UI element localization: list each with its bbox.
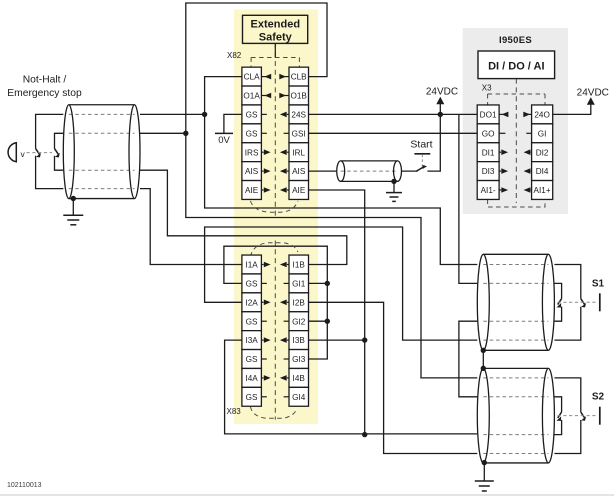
Start contact blade [416, 166, 425, 171]
terminal X82:GSI [289, 124, 309, 143]
svg-text:DI4: DI4 [536, 167, 549, 176]
arrow IRL input [287, 151, 289, 153]
svg-text:GO: GO [482, 129, 495, 138]
svg-text:CLB: CLB [291, 73, 307, 82]
cable W1 conductor 2 (dashed) [69, 132, 135, 134]
svg-text:GI3: GI3 [292, 355, 306, 364]
e-stop contact K2 blade [55, 149, 59, 155]
terminal X83:I3A [242, 331, 262, 350]
arrow I2A input [261, 301, 263, 303]
shielded cable W4 (sensor S2) body [483, 368, 548, 463]
terminal X82:GS [242, 105, 262, 124]
wire S1 conductor 3 to S2 conductor 2 [459, 321, 477, 397]
svg-text:v: v [20, 149, 25, 159]
terminal X83:GS [242, 387, 262, 406]
emergency stop mushroom button [8, 143, 16, 162]
svg-text:GS: GS [246, 355, 258, 364]
terminal X3:AI1+ [532, 181, 553, 200]
junction 24V rail / 24VDC feed / Start [438, 112, 443, 117]
arrow I3A input [261, 339, 263, 341]
svg-text:Start: Start [410, 139, 432, 151]
svg-text:0V: 0V [218, 135, 230, 146]
stub GS (X82 row3) [261, 113, 266, 115]
cable W4 conductor 4 (dashed) [483, 453, 548, 455]
Start button stem (dashed) [421, 155, 423, 168]
S1 contact blade (outer) [581, 299, 585, 305]
svg-text:IRL: IRL [292, 148, 305, 157]
cable W2 shield junction [391, 179, 396, 184]
arrow DO1 output [499, 113, 503, 115]
svg-text:GI1: GI1 [292, 280, 306, 289]
terminal X82:GS [242, 124, 262, 143]
svg-text:GS: GS [246, 393, 258, 402]
wire GI2 stub to bridge [309, 320, 328, 322]
arrow I1B input [287, 264, 289, 266]
terminal X83:GS [242, 350, 262, 369]
wire 24S to DO1 (24V rail) [309, 113, 478, 115]
cable W3 conductor 3 (dashed) [483, 320, 548, 322]
svg-text:GI2: GI2 [292, 317, 306, 326]
cable W1 conductor 1 (dashed) [69, 113, 135, 115]
svg-text:I4B: I4B [293, 374, 306, 383]
connector X83 centre line (dashed) [274, 241, 276, 420]
svg-text:I2B: I2B [293, 298, 306, 307]
terminal X3:GI [532, 124, 553, 143]
terminal X83:I3B [289, 331, 309, 350]
svg-text:I4A: I4A [245, 374, 258, 383]
svg-text:GI: GI [538, 129, 547, 138]
terminal X83:I1A [242, 255, 262, 274]
S2 contact blade (inner) [558, 412, 562, 418]
terminal X3:DI4 [532, 162, 553, 181]
terminal X82:IRL [289, 143, 309, 162]
cable W2 conductor (dashed) [341, 170, 398, 172]
wire W3 shield to W4 shield [482, 350, 484, 368]
stub GI3 [284, 358, 289, 360]
terminal X82:CLB [289, 67, 309, 86]
wire 24V rail down to S1 conductor 2 [459, 114, 477, 283]
svg-text:24O: 24O [534, 111, 549, 120]
terminal X82:O1B [289, 86, 309, 105]
S1 contact blade (inner) [558, 299, 562, 305]
cable W1 conductor 3 (dashed) [69, 169, 135, 171]
svg-text:GI4: GI4 [292, 393, 306, 402]
cable W4 conductor 1 (dashed) [483, 377, 548, 379]
wire S2 contact to conductor 4 [554, 420, 580, 454]
terminal X83:GI1 [289, 274, 309, 293]
svg-text:AIS: AIS [245, 167, 259, 176]
junction AIE-net / S2 conductor 3 [362, 432, 367, 437]
wire I2A to S1 conductor 4 (node C) [205, 227, 478, 340]
e-stop contact K1 blade [36, 149, 40, 155]
stub GS [261, 396, 266, 398]
svg-text:I2A: I2A [245, 298, 258, 307]
wire title box to X82 [274, 43, 276, 57]
svg-text:DI2: DI2 [536, 148, 549, 157]
connector X82 centre line (dashed) [274, 43, 276, 217]
wire AIS to Start cable [309, 170, 337, 172]
terminal X3:GO [477, 124, 499, 143]
ground (cable W1 shield) [63, 214, 83, 216]
svg-text:GS: GS [246, 317, 258, 326]
svg-text:AIE: AIE [292, 186, 306, 195]
stub GI4 [284, 396, 289, 398]
shielded cable W3 (sensor S1) body [483, 254, 548, 350]
terminal X3:24O [532, 105, 553, 124]
svg-text:I3A: I3A [245, 336, 258, 345]
arrow AIE input (right) [287, 189, 289, 191]
arrow O1A output [261, 95, 266, 97]
wire Start cable to Start contact [402, 170, 418, 172]
terminal X83:I4B [289, 368, 309, 387]
svg-text:Safety: Safety [259, 32, 293, 44]
cable W3 shield junction [481, 348, 486, 353]
shielded cable W1 (emergency stop) body [69, 105, 135, 199]
cable W3 conductor 1 (dashed) [483, 264, 548, 266]
cable W4 shield earth lead [483, 463, 485, 481]
mechanical link (dashed) button to contacts [27, 152, 53, 154]
terminal X3:DO1 [477, 105, 499, 124]
wire S2 conductor 1 to contact [554, 378, 580, 412]
junction AIE-net / I3B wire [362, 337, 367, 342]
arrow DI2 input [531, 151, 532, 153]
arrow IRS input [261, 151, 263, 153]
ground (cable W4 shield) [475, 480, 494, 482]
arrow I3B input [287, 339, 289, 341]
connector X3 centre line (dashed) [515, 79, 517, 203]
svg-text:DI3: DI3 [482, 167, 495, 176]
cable W3 outline [483, 253, 548, 255]
I950ES device background [463, 28, 568, 214]
cable W1 conductor 4 (dashed) [69, 188, 135, 190]
arrow DI1 input [499, 151, 501, 153]
terminal X3:AI1- [477, 181, 499, 200]
svg-text:AI1-: AI1- [481, 186, 496, 195]
stub GS [261, 358, 266, 360]
arrow I4B input [287, 377, 289, 379]
cable W3 conductor 2 (dashed) [483, 282, 548, 284]
svg-text:GS: GS [246, 111, 258, 120]
cable W2 shield earth lead [393, 181, 395, 192]
arrow DI4 input [531, 170, 532, 172]
svg-text:Extended: Extended [251, 18, 301, 30]
terminal X83:GS [242, 312, 262, 331]
arrow AI1- input [499, 189, 501, 191]
cable W4 conductor 3 (dashed) [483, 434, 548, 436]
svg-text:CLA: CLA [244, 73, 260, 82]
svg-text:Not-Halt /: Not-Halt / [23, 74, 67, 85]
svg-text:I950ES: I950ES [499, 35, 532, 46]
arrow 24S input [287, 113, 289, 115]
junction bridge / GI1 [325, 281, 330, 286]
wire S2 conductor 2 to inner contact [554, 397, 561, 412]
wire AIE to sensor return net [309, 190, 365, 434]
wire 24O to 24VDC [553, 104, 591, 114]
terminal X82:24S [289, 105, 309, 124]
cable W1 outline [69, 104, 135, 106]
arrow AIS input (right) [287, 170, 289, 172]
terminal X82:IRS [242, 143, 262, 162]
arrow CLA output [261, 76, 266, 78]
stub GI [526, 132, 531, 134]
stub GSI [284, 132, 289, 134]
ground (cable W2 shield) [386, 192, 402, 194]
stub GS (X82 row4) [261, 132, 266, 134]
stub GI1 [284, 282, 289, 284]
terminal X82:AIE [242, 181, 262, 200]
cable W3 conductor 4 (dashed) [483, 339, 548, 341]
wire S1 inner contact to conductor 3 [554, 307, 561, 322]
DI / DO / AI function box [478, 51, 555, 79]
svg-text:S1: S1 [592, 278, 605, 289]
wire GI1 stub to bridge [309, 282, 328, 284]
wire GS to 0V [224, 114, 242, 133]
terminal X83:GS [242, 274, 262, 293]
Extended Safety title box [243, 15, 308, 43]
wire S1 conductor 2 to inner contact [554, 283, 561, 298]
cable W2 outline [341, 160, 398, 162]
arrow AIE input (left) [261, 189, 263, 191]
svg-text:I3B: I3B [293, 336, 306, 345]
cable W4 outline [483, 367, 548, 369]
wire e-stop conductor 4 to I1A [140, 189, 242, 265]
wire e-stop conductor 1 to CLA net [140, 113, 205, 115]
shielded cable W2 (Start) body [341, 161, 398, 182]
wire I3B to AIE-net [309, 339, 365, 341]
svg-text:24VDC: 24VDC [577, 87, 609, 98]
wire Start contact to 24V junction [427, 114, 440, 171]
svg-text:AIE: AIE [245, 186, 259, 195]
svg-text:S2: S2 [592, 392, 605, 403]
wire S1 conductor 1 to contact [554, 265, 580, 299]
svg-text:GSI: GSI [292, 129, 306, 138]
terminal X83:GI2 [289, 312, 309, 331]
24VDC supply arrow (right) [587, 97, 595, 105]
arrow I2B input [287, 301, 289, 303]
cable W1 shield junction [71, 196, 76, 201]
svg-text:DI1: DI1 [482, 148, 495, 157]
wire CLA to emergency-stop net (node A) [205, 77, 478, 265]
svg-text:102110013: 102110013 [7, 482, 42, 489]
stub GS [261, 282, 266, 284]
wire e-stop conductor 1 to contact K1 [36, 114, 64, 148]
svg-text:AI1+: AI1+ [534, 186, 551, 195]
terminal X83:I2A [242, 293, 262, 312]
S1 magnet bar [599, 293, 601, 311]
arrow O1B output [284, 95, 289, 97]
terminal X83:I2B [289, 293, 309, 312]
wire I2B to S2 conductor 4 [309, 302, 478, 453]
terminal X83:GI3 [289, 350, 309, 369]
connector X3 dashed outline [488, 93, 545, 95]
svg-text:DI / DO / AI: DI / DO / AI [488, 60, 544, 72]
terminal X82:AIE [289, 181, 309, 200]
S2 contact blade (outer) [581, 412, 585, 418]
svg-text:I1A: I1A [245, 261, 258, 270]
terminal X3:DI3 [477, 162, 499, 181]
junction CLA-net / e-stop conductor 1 [202, 112, 207, 117]
terminal X83:I1B [289, 255, 309, 274]
wire S1 contact to conductor 4 [554, 307, 580, 341]
svg-text:I1B: I1B [293, 261, 306, 270]
terminal X82:AIS [242, 162, 262, 181]
terminal X82:AIS [289, 162, 309, 181]
yellow safety highlight band [234, 10, 318, 425]
page bottom rule [0, 494, 614, 496]
terminal X3:DI1 [477, 143, 499, 162]
arrow AI1+ input [531, 189, 532, 191]
wire I3A to S2 conductor 3 [225, 340, 478, 434]
wire S2 inner contact to conductor 3 [554, 420, 561, 435]
svg-text:24S: 24S [291, 111, 306, 120]
svg-text:X3: X3 [482, 83, 492, 92]
svg-text:Emergency stop: Emergency stop [7, 88, 82, 99]
svg-text:24VDC: 24VDC [426, 86, 458, 97]
cable W4 conductor 2 (dashed) [483, 396, 548, 398]
0V potential bar [215, 132, 233, 134]
Start button bar [414, 153, 430, 155]
terminal X82:O1A [242, 86, 262, 105]
junction CLB-net / e-stop conductor 2 [183, 131, 188, 136]
S2 actuator link (dashed) [558, 415, 597, 417]
24VDC supply arrow (left) [436, 97, 444, 105]
cable W4 shield junction (top) [481, 366, 486, 371]
connector X83 dashed outline [250, 243, 298, 257]
stub GS [261, 320, 266, 322]
wire e-stop conductor 2 to CLB net [140, 132, 186, 134]
arrow DI3 input [499, 170, 501, 172]
arrow I4A input [261, 377, 263, 379]
svg-text:DO1: DO1 [480, 111, 497, 120]
wire GSI to GO [309, 132, 478, 134]
cable W4 shield junction (bottom) [482, 460, 487, 465]
terminal X83:GI4 [289, 387, 309, 406]
stub GI2 [284, 320, 289, 322]
junction bridge / GI2 [325, 319, 330, 324]
svg-text:O1A: O1A [243, 92, 260, 101]
S1 actuator link (dashed) [558, 301, 597, 303]
arrow I1A input [261, 264, 263, 266]
cable W1 shield earth lead [72, 199, 74, 215]
S2 magnet bar [599, 407, 601, 425]
wire contact K1 to e-stop conductor 4 [36, 156, 64, 189]
svg-text:IRS: IRS [245, 148, 259, 157]
wire e-stop conductor 3 to I1B (node D) [140, 170, 347, 264]
connector X82 dashed outline [251, 57, 299, 59]
arrow 24O output [528, 113, 531, 115]
terminal X3:DI2 [532, 143, 553, 162]
svg-text:O1B: O1B [291, 92, 308, 101]
wire e-stop conductor 2 to contact K2 [55, 133, 64, 148]
wire CLB loop over top (node B) [186, 3, 478, 378]
svg-text:GS: GS [246, 129, 258, 138]
svg-text:X82: X82 [227, 51, 242, 60]
terminal X83:I4A [242, 368, 262, 387]
stub GO [499, 132, 505, 134]
arrow AIS input (left) [261, 170, 263, 172]
svg-text:AIS: AIS [292, 167, 306, 176]
wire GS1 to GI1/GI2/GI3 bridge (node E) [224, 246, 327, 359]
arrow CLB output [284, 76, 289, 78]
wire contact K2 to e-stop conductor 3 [55, 156, 64, 170]
terminal X82:CLA [242, 67, 262, 86]
svg-text:X83: X83 [227, 407, 242, 416]
svg-text:GS: GS [246, 280, 258, 289]
